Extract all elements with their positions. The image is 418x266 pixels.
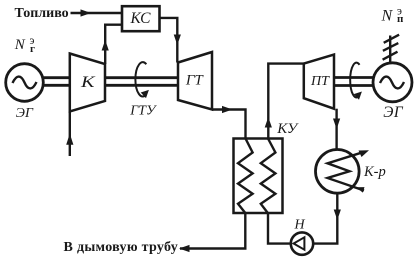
arrow down to GT	[174, 35, 181, 46]
exhaust wire GT to KU	[212, 110, 246, 139]
svg-text:В дымовую трубу: В дымовую трубу	[64, 240, 179, 255]
svg-text:Топливо: Топливо	[15, 6, 69, 21]
KU zigzag right	[261, 139, 276, 214]
rotation arrow GTU	[135, 62, 146, 96]
wire compressor to KS	[105, 25, 122, 64]
fuel wire	[71, 12, 123, 14]
svg-text:К: К	[80, 74, 97, 91]
steam wire KU to PT	[268, 64, 304, 139]
rotation arrow right	[350, 63, 359, 98]
generator EG1 sine wave	[13, 77, 37, 89]
wire pump to KU	[268, 213, 291, 244]
steam arrow up	[265, 117, 272, 128]
arrow up to KS	[102, 40, 109, 51]
svg-text:К-р: К-р	[363, 164, 386, 180]
pump N circle	[291, 232, 313, 254]
svg-text:ПТ: ПТ	[310, 74, 330, 89]
flue arrow	[179, 245, 190, 252]
wire PT to condenser	[335, 109, 337, 150]
air inlet arrow	[66, 134, 73, 145]
svg-text:ГТУ: ГТУ	[129, 103, 157, 118]
cooling water inlet arrow	[356, 187, 365, 193]
grid hatch marks	[383, 35, 400, 60]
boiler KU box	[234, 139, 283, 214]
wire condenser to pump	[313, 193, 337, 244]
generator EG2 sine wave	[380, 77, 404, 89]
svg-text:п: п	[397, 13, 404, 25]
combustion chamber KS box	[122, 6, 160, 31]
air inlet wire	[69, 112, 71, 157]
flue wire to chimney	[180, 213, 245, 249]
generator EG1 circle	[6, 64, 44, 102]
svg-text:КС: КС	[130, 10, 152, 27]
condenser cooling zigzag	[328, 152, 365, 190]
pump triangle	[294, 237, 305, 249]
grid connection wire	[389, 36, 391, 64]
generator EG2 circle	[373, 63, 412, 102]
svg-text:N: N	[381, 8, 394, 25]
svg-text:г: г	[30, 43, 35, 55]
arrow down to pump	[334, 210, 341, 221]
KU zigzag left	[238, 139, 253, 214]
steam turbine PT	[304, 55, 334, 109]
exhaust arrow	[222, 106, 233, 113]
compressor K	[70, 54, 105, 112]
cooling water arrow	[359, 150, 370, 157]
condenser Kr circle	[316, 150, 360, 194]
svg-text:КУ: КУ	[276, 121, 299, 137]
svg-text:Н: Н	[294, 218, 306, 233]
fuel arrow	[81, 9, 92, 16]
shaft PT to generator EG2	[334, 78, 373, 86]
shaft compressor to gas turbine	[105, 78, 178, 86]
arrow down to condenser	[333, 119, 340, 130]
shaft generator to compressor	[43, 78, 70, 86]
svg-text:ГТ: ГТ	[185, 72, 205, 88]
svg-text:ЭГ: ЭГ	[16, 106, 34, 121]
wire KS to gas turbine	[160, 18, 178, 63]
svg-text:N: N	[14, 37, 26, 53]
gas turbine GT	[178, 52, 212, 110]
svg-text:ЭГ: ЭГ	[383, 104, 404, 121]
